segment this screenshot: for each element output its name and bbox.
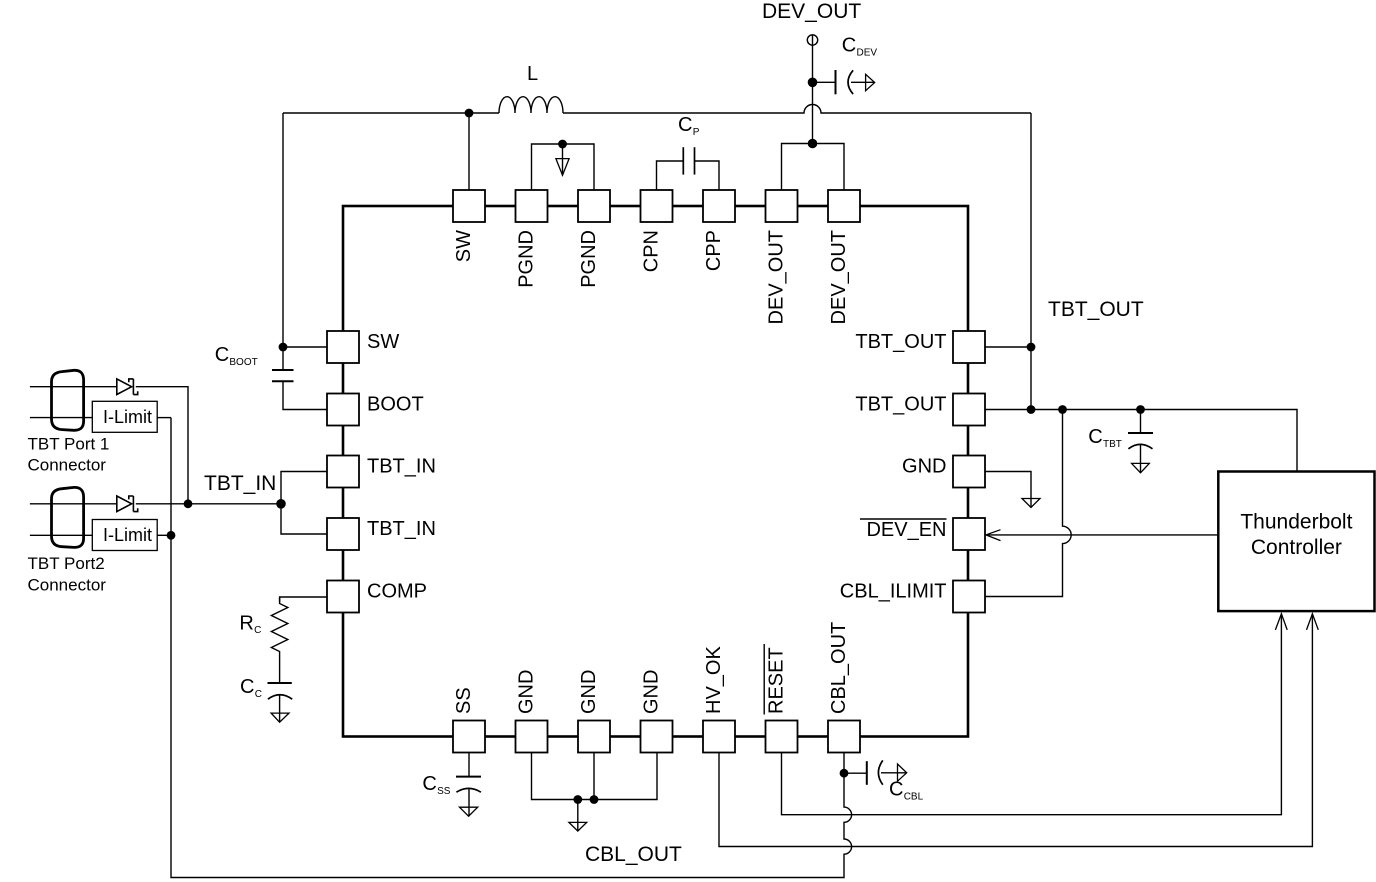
- svg-text:BOOT: BOOT: [229, 357, 257, 368]
- svg-text:TBT_IN: TBT_IN: [204, 472, 276, 495]
- svg-text:RESET: RESET: [766, 647, 788, 714]
- svg-text:Controller: Controller: [1251, 536, 1342, 559]
- svg-text:DEV_OUT: DEV_OUT: [766, 230, 788, 324]
- svg-text:SS: SS: [437, 786, 451, 797]
- svg-text:DEV_EN: DEV_EN: [866, 519, 946, 541]
- svg-text:SW: SW: [453, 230, 475, 262]
- svg-text:TBT Port2: TBT Port2: [28, 554, 105, 573]
- svg-text:TBT_IN: TBT_IN: [367, 518, 436, 540]
- svg-text:GND: GND: [516, 670, 538, 714]
- svg-text:TBT_OUT: TBT_OUT: [1048, 298, 1144, 321]
- svg-text:TBT_IN: TBT_IN: [367, 456, 436, 478]
- svg-text:C: C: [240, 676, 254, 698]
- svg-text:PGND: PGND: [516, 230, 538, 288]
- svg-text:C: C: [842, 35, 856, 57]
- svg-text:P: P: [693, 127, 700, 138]
- svg-text:GND: GND: [578, 670, 600, 714]
- svg-text:GND: GND: [641, 670, 663, 714]
- svg-text:SW: SW: [367, 331, 399, 353]
- svg-text:I-Limit: I-Limit: [103, 525, 152, 545]
- svg-text:C: C: [422, 773, 436, 795]
- svg-text:TBT: TBT: [1103, 439, 1122, 450]
- svg-text:COMP: COMP: [367, 581, 427, 603]
- svg-text:TBT_OUT: TBT_OUT: [855, 394, 946, 416]
- svg-text:TBT_OUT: TBT_OUT: [855, 331, 946, 353]
- svg-text:PGND: PGND: [578, 230, 600, 288]
- svg-text:CPN: CPN: [641, 230, 663, 272]
- svg-text:DEV_OUT: DEV_OUT: [828, 230, 850, 324]
- svg-text:CBL_ILIMIT: CBL_ILIMIT: [840, 581, 947, 603]
- svg-text:CBL: CBL: [904, 791, 924, 802]
- svg-text:SS: SS: [453, 687, 475, 714]
- svg-text:DEV: DEV: [857, 47, 878, 58]
- svg-text:Thunderbolt: Thunderbolt: [1240, 511, 1352, 534]
- svg-text:HV_OK: HV_OK: [703, 646, 725, 714]
- svg-text:C: C: [215, 344, 229, 366]
- svg-text:CPP: CPP: [703, 230, 725, 271]
- svg-text:R: R: [239, 612, 253, 634]
- svg-text:TBT Port 1: TBT Port 1: [28, 435, 110, 454]
- svg-text:Connector: Connector: [28, 456, 107, 475]
- svg-text:C: C: [678, 114, 692, 136]
- svg-text:C: C: [1088, 426, 1102, 448]
- svg-text:GND: GND: [902, 456, 946, 478]
- svg-text:Connector: Connector: [28, 576, 107, 595]
- svg-text:L: L: [527, 63, 538, 85]
- svg-text:CBL_OUT: CBL_OUT: [585, 843, 682, 866]
- svg-text:I-Limit: I-Limit: [103, 407, 152, 427]
- svg-text:C: C: [255, 689, 262, 700]
- svg-text:C: C: [254, 625, 261, 636]
- svg-text:CBL_OUT: CBL_OUT: [828, 622, 850, 714]
- svg-text:DEV_OUT: DEV_OUT: [762, 0, 861, 23]
- svg-text:C: C: [889, 779, 903, 801]
- svg-text:BOOT: BOOT: [367, 394, 424, 416]
